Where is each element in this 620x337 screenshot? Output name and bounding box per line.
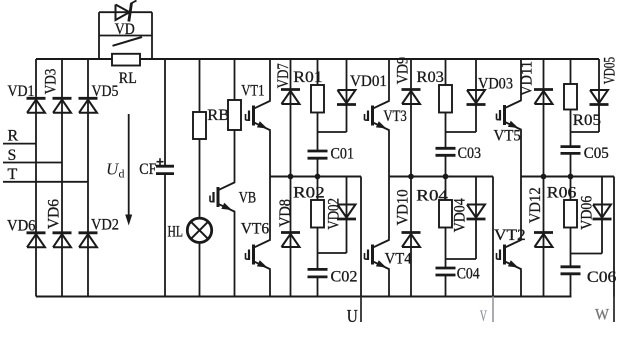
- wire CF column upper: [164, 59, 166, 166]
- resistor RB: [228, 100, 241, 130]
- wire switch branch: [99, 35, 152, 37]
- node phase-diode junction: [408, 174, 414, 180]
- wire input T: [3, 181, 88, 183]
- wire VD06 column: [601, 177, 603, 254]
- capacitor C05: [561, 147, 581, 154]
- diode VD7: [281, 90, 300, 105]
- svg-text:VD03: VD03: [478, 76, 513, 93]
- capacitor C03: [436, 148, 456, 155]
- svg-text:VT1: VT1: [241, 83, 264, 100]
- svg-text:VD11: VD11: [519, 61, 536, 96]
- diode VD01: [337, 90, 356, 105]
- wire rectifier column R-phase: [35, 59, 37, 297]
- lamp HL: [187, 218, 211, 242]
- resistor R04: [439, 200, 452, 228]
- wire R01 column: [317, 59, 319, 151]
- resistor R05: [564, 84, 577, 110]
- wire VT6 collector: [269, 177, 271, 240]
- wire VT3 emitter: [388, 130, 390, 176]
- IGBT transistor VT3: [365, 101, 390, 131]
- svg-text:RL: RL: [119, 70, 137, 87]
- svg-text:VD9: VD9: [395, 57, 412, 84]
- svg-text:T: T: [8, 166, 18, 183]
- wire R02 column: [317, 177, 319, 270]
- svg-text:U: U: [347, 306, 358, 326]
- wire VT6 emitter: [269, 269, 271, 296]
- diode VD10: [402, 233, 421, 248]
- wire CF column lower: [164, 174, 166, 297]
- svg-text:VD02: VD02: [326, 198, 343, 230]
- svg-text:VD6: VD6: [46, 199, 63, 229]
- resistor R01: [311, 85, 324, 113]
- wire VT5 collector: [520, 59, 522, 100]
- svg-text:VD8: VD8: [277, 199, 294, 227]
- capacitor C02: [308, 269, 328, 277]
- wire output V: [492, 177, 494, 297]
- wire output U: [360, 177, 362, 297]
- diode VD6 b: [53, 233, 72, 248]
- wire VD03 column: [475, 59, 477, 132]
- svg-text:VD6: VD6: [7, 217, 36, 234]
- wire VT2 emitter: [520, 269, 522, 296]
- diode VD6: [27, 233, 46, 248]
- capacitor C01: [308, 151, 328, 158]
- wire VD05 column: [598, 59, 600, 132]
- node phase-diode junction: [288, 174, 294, 180]
- svg-text:C05: C05: [584, 145, 609, 162]
- svg-text:VD3: VD3: [43, 69, 60, 95]
- wire phase bus V: [389, 175, 493, 177]
- Ud arrow: [125, 114, 132, 226]
- capacitor CF: [156, 166, 174, 173]
- svg-text:VD7: VD7: [275, 63, 292, 88]
- wire VD8 column: [290, 177, 292, 297]
- IGBT transistor VT4: [365, 240, 390, 270]
- wire phase bus W: [521, 175, 614, 177]
- node phase-resistor junction: [443, 174, 449, 180]
- wire VD7 column: [290, 59, 292, 177]
- wire positive DC bus (top): [36, 58, 599, 60]
- resistor R03: [439, 85, 452, 113]
- svg-text:RB: RB: [207, 107, 229, 124]
- node phase-resistor junction: [315, 174, 321, 180]
- svg-text:R06: R06: [547, 185, 577, 202]
- svg-text:VT6: VT6: [241, 220, 270, 237]
- svg-text:R01: R01: [293, 69, 322, 86]
- wire bypass diode branch: [99, 11, 152, 13]
- wire VT2 collector: [520, 177, 522, 240]
- svg-text:CF: CF: [139, 161, 156, 178]
- wire VD01 column: [346, 59, 348, 132]
- svg-text:VD1: VD1: [8, 83, 35, 100]
- svg-text:R04: R04: [416, 187, 448, 204]
- wire VD11 column: [543, 59, 545, 177]
- capacitor C06: [561, 267, 581, 274]
- diode VD2: [79, 233, 98, 248]
- wire VT5 emitter: [520, 130, 522, 177]
- wire R05 column: [570, 59, 572, 147]
- wire bypass loop left: [98, 12, 100, 59]
- svg-text:VD10: VD10: [394, 189, 411, 225]
- wire rectifier column S-phase: [61, 59, 63, 297]
- svg-text:HL: HL: [168, 224, 184, 241]
- diode VD8: [281, 233, 300, 248]
- wire VD04 column: [475, 177, 477, 260]
- IGBT transistor VT1: [246, 101, 271, 131]
- resistor RL: [112, 54, 140, 66]
- wire R03 column: [445, 59, 447, 148]
- diode VD06: [593, 205, 612, 220]
- wire VD03 junction link: [446, 131, 477, 133]
- svg-text:VT2: VT2: [494, 227, 526, 244]
- diode VD12: [534, 233, 553, 248]
- wire VT1 collector: [269, 59, 271, 101]
- svg-text:C06: C06: [587, 269, 617, 286]
- diode VD5: [79, 98, 98, 113]
- diode VD9: [402, 90, 421, 105]
- diode VD05: [590, 90, 609, 105]
- diode VD04: [467, 205, 486, 220]
- CF plus sign: [157, 158, 164, 165]
- IGBT transistor VT5: [497, 100, 522, 130]
- wire R04 column: [445, 177, 447, 269]
- diode VD3: [53, 98, 72, 113]
- wire lamp column: [199, 59, 201, 297]
- svg-text:V: V: [480, 308, 487, 325]
- wire input S: [3, 162, 62, 164]
- wire VD06 junction link: [571, 253, 603, 255]
- diode VD11: [534, 90, 553, 105]
- svg-text:C02: C02: [331, 269, 358, 286]
- wire VD02 junction link: [318, 252, 347, 254]
- wire brake column: [234, 59, 236, 182]
- IGBT transistor VT2: [497, 240, 522, 270]
- wire VD04 junction link: [446, 258, 477, 260]
- svg-text:S: S: [8, 147, 17, 164]
- svg-text:d: d: [119, 167, 125, 181]
- wire VT1 emitter: [269, 130, 271, 176]
- wire input R: [3, 143, 36, 145]
- svg-text:R05: R05: [573, 112, 601, 129]
- svg-text:VT4: VT4: [385, 251, 412, 268]
- resistor R02: [311, 200, 324, 228]
- svg-text:VD01: VD01: [350, 73, 387, 90]
- wire VD01 junction link: [318, 131, 347, 133]
- svg-text:C04: C04: [457, 266, 480, 283]
- node phase-diode junction: [541, 174, 547, 180]
- resistor R06: [564, 200, 577, 228]
- wire VT3 collector: [388, 59, 390, 101]
- capacitor C04: [436, 268, 456, 275]
- diode VD horizontal: [116, 1, 137, 22]
- wire negative DC bus (bottom): [36, 295, 572, 297]
- svg-text:VD12: VD12: [527, 187, 544, 223]
- wire VT4 emitter: [388, 269, 390, 296]
- wire VD9 column: [410, 59, 412, 177]
- wire phase bus U: [270, 175, 361, 177]
- diode VD02: [337, 205, 356, 220]
- wire VD05 junction link: [571, 131, 600, 133]
- svg-text:VD05: VD05: [602, 57, 619, 84]
- wire VT4 collector: [388, 177, 390, 240]
- svg-text:VT3: VT3: [383, 108, 406, 125]
- wire VD12 column: [543, 177, 545, 297]
- svg-text:VT5: VT5: [494, 128, 521, 145]
- wire VD02 column: [346, 177, 348, 254]
- switch blade: [113, 37, 143, 46]
- wire VD10 column: [410, 177, 412, 297]
- wire R06 column: [570, 177, 572, 267]
- svg-text:VD2: VD2: [91, 217, 119, 234]
- svg-text:R02: R02: [293, 185, 325, 202]
- svg-text:R: R: [8, 128, 19, 145]
- wire bypass loop right: [151, 12, 153, 59]
- svg-text:C03: C03: [458, 145, 482, 162]
- svg-text:VD06: VD06: [579, 196, 596, 230]
- svg-text:VD5: VD5: [92, 83, 119, 100]
- IGBT transistor VB: [210, 182, 235, 212]
- svg-text:W: W: [595, 306, 610, 323]
- IGBT transistor VT6: [246, 240, 271, 270]
- diode VD1: [27, 98, 46, 113]
- wire output W: [613, 177, 615, 297]
- svg-text:R03: R03: [417, 69, 444, 86]
- resistor lamp series resistor: [193, 112, 206, 139]
- diode VD03: [467, 90, 486, 105]
- svg-text:VB: VB: [239, 190, 257, 207]
- node phase-resistor junction: [568, 174, 574, 180]
- svg-text:VD04: VD04: [451, 198, 468, 232]
- wire rectifier column T-phase: [87, 59, 89, 297]
- svg-text:C01: C01: [331, 145, 355, 162]
